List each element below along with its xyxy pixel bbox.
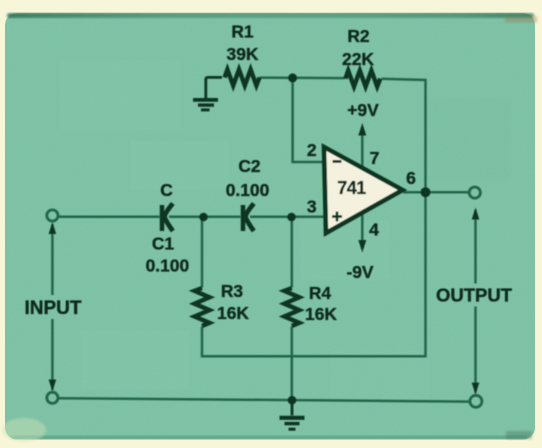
svg-text:22K: 22K	[342, 49, 374, 69]
svg-text:C: C	[160, 180, 173, 200]
svg-text:4: 4	[369, 220, 379, 240]
svg-text:-9V: -9V	[346, 262, 373, 282]
svg-text:3: 3	[307, 197, 317, 217]
svg-text:OUTPUT: OUTPUT	[436, 285, 513, 306]
svg-text:0.100: 0.100	[226, 180, 270, 200]
svg-text:R2: R2	[347, 26, 369, 46]
svg-text:6: 6	[406, 168, 416, 188]
svg-text:16K: 16K	[305, 304, 337, 324]
svg-text:R1: R1	[231, 22, 254, 42]
svg-text:+9V: +9V	[347, 100, 379, 120]
svg-text:39K: 39K	[227, 44, 259, 64]
svg-text:R4: R4	[309, 283, 332, 303]
svg-text:0.100: 0.100	[146, 256, 190, 276]
svg-text:C2: C2	[238, 156, 260, 176]
svg-text:C1: C1	[152, 234, 175, 254]
svg-text:7: 7	[370, 148, 380, 168]
svg-text:16K: 16K	[217, 303, 249, 323]
svg-text:R3: R3	[221, 281, 244, 301]
svg-text:2: 2	[307, 140, 317, 160]
svg-text:741: 741	[337, 178, 366, 198]
svg-text:INPUT: INPUT	[25, 298, 82, 319]
